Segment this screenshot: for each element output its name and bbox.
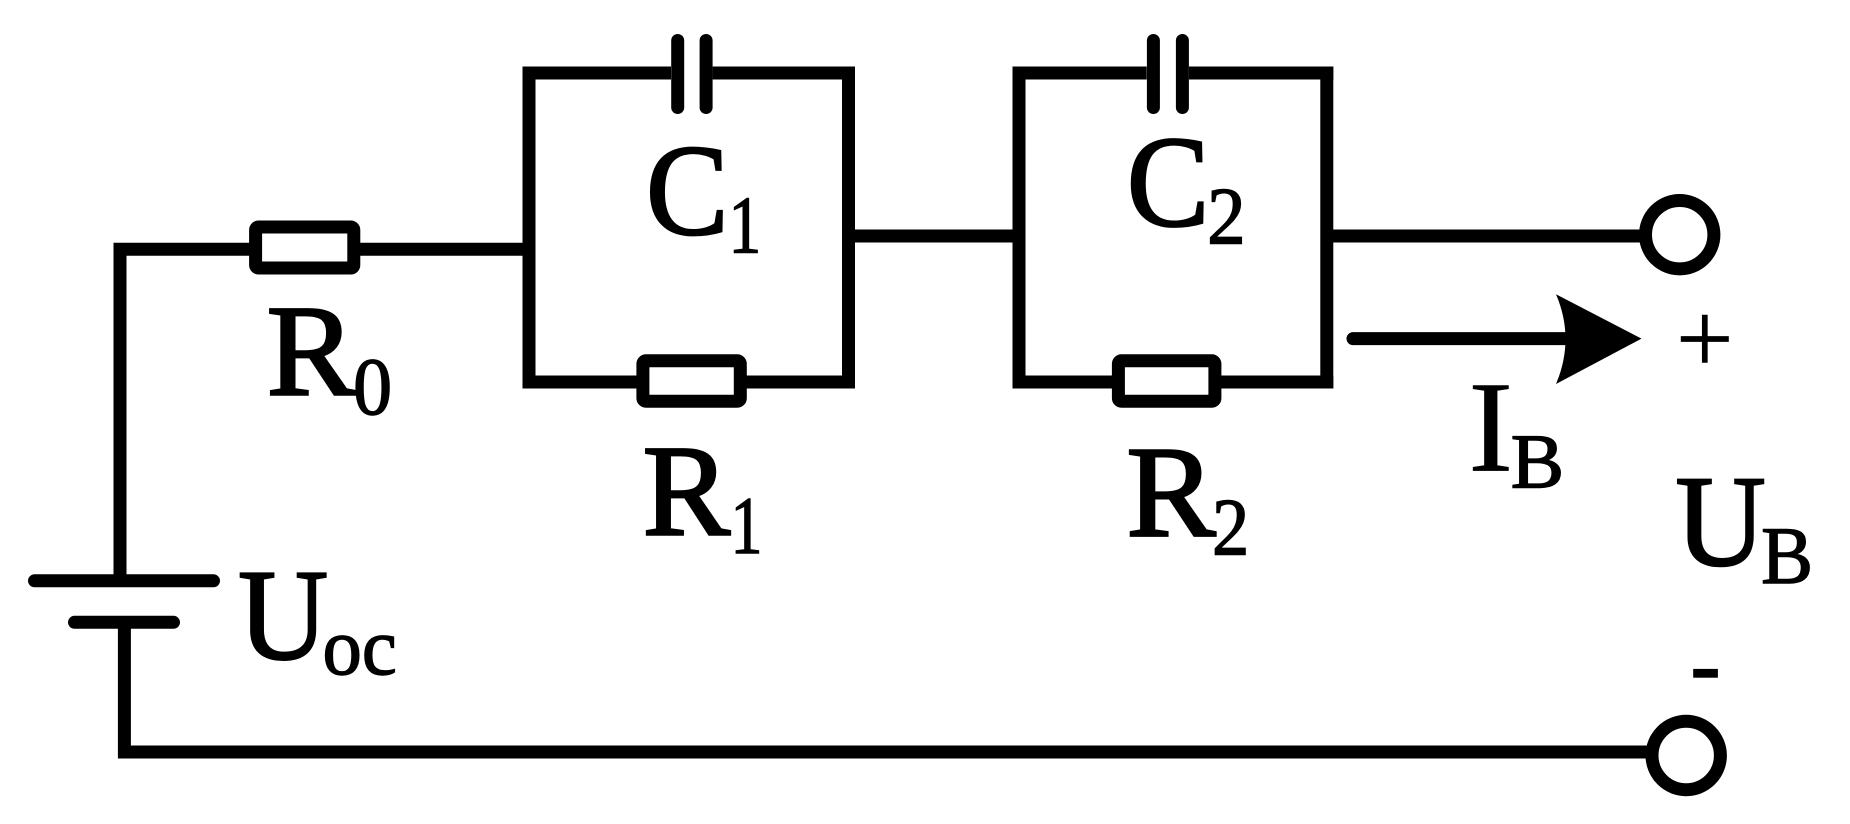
capacitor C1 left plate	[671, 41, 684, 108]
C1 loop bottom edge wire	[523, 376, 856, 389]
svg-text:oc: oc	[323, 601, 397, 692]
svg-text:I: I	[1468, 355, 1513, 499]
current arrow IB head	[1556, 294, 1642, 384]
plus sign at positive terminal	[1681, 315, 1729, 363]
svg-text:C: C	[646, 119, 728, 263]
C1 loop right edge wire	[842, 67, 855, 389]
current arrow IB shaft	[1353, 332, 1566, 345]
C2 loop top edge wire left of capacitor	[1013, 67, 1147, 80]
positive terminal circle	[1646, 201, 1714, 269]
svg-text:C: C	[1127, 111, 1209, 255]
svg-text:B: B	[1511, 419, 1564, 504]
battery short plate (negative) of Uoc	[75, 616, 174, 629]
C1 loop left edge wire	[523, 67, 536, 389]
wire: node between RC pair 1 and RC pair 2	[849, 230, 1020, 243]
svg-text:U: U	[1675, 449, 1765, 594]
resistor R0 body	[256, 227, 354, 268]
resistor R1 body	[643, 361, 740, 401]
capacitor C1 right plate	[700, 41, 713, 108]
svg-text:2: 2	[1212, 481, 1249, 572]
svg-text:R: R	[1126, 419, 1215, 564]
negative terminal circle	[1652, 721, 1720, 789]
C2 loop bottom edge wire	[1013, 376, 1334, 389]
battery long plate (positive) of Uoc	[35, 574, 214, 587]
C1 loop top edge wire right of capacitor	[713, 67, 855, 80]
capacitor C2 right plate	[1176, 41, 1189, 108]
svg-text:0: 0	[353, 342, 392, 432]
C2 loop right edge wire	[1320, 67, 1333, 389]
svg-text:R: R	[643, 420, 731, 563]
wire: battery negative down and bottom rail to negative terminal	[124, 622, 1651, 752]
svg-text:2: 2	[1207, 171, 1246, 262]
resistor R2 body	[1118, 361, 1215, 401]
svg-text:U: U	[238, 542, 328, 687]
svg-text:R: R	[267, 278, 356, 423]
svg-text:1: 1	[731, 479, 763, 570]
wire: C2/R2 to positive terminal	[1327, 230, 1646, 243]
C1 loop top edge wire left of capacitor	[523, 67, 672, 80]
minus sign at negative terminal	[1693, 669, 1718, 678]
C2 loop left edge wire	[1013, 67, 1026, 389]
wire: battery positive up left side and top to R0/C1	[120, 249, 536, 575]
svg-text:B: B	[1761, 511, 1813, 601]
capacitor C2 left plate	[1147, 41, 1160, 108]
C2 loop top edge wire right of capacitor	[1189, 67, 1333, 80]
svg-text:1: 1	[729, 181, 762, 272]
